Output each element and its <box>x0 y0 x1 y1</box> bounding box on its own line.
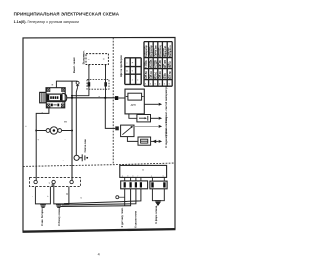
arrow A2 <box>159 117 162 120</box>
svg-text:К акк. батарее: К акк. батарее <box>40 208 44 226</box>
legend table cell texts <box>144 45 172 86</box>
svg-text:1: 1 <box>169 83 171 85</box>
limiter R1 box <box>121 125 134 137</box>
wire marks <box>32 194 82 200</box>
svg-text:3МТ-6: 3МТ-6 <box>169 61 172 68</box>
bolt top-left <box>47 88 50 91</box>
bolt bottom-right <box>61 104 64 107</box>
svg-text:ФВ: ФВ <box>64 121 68 124</box>
svg-text:К амперметру: К амперметру <box>164 85 168 103</box>
svg-text:+: + <box>37 138 39 141</box>
socket wires <box>36 130 72 132</box>
svg-text:11: 11 <box>126 71 129 73</box>
svg-text:в: в <box>132 175 133 177</box>
polarity marks <box>37 121 67 142</box>
svg-text:1.1а(б). Генератор с ручным за: 1.1а(б). Генератор с ручным запуском <box>14 20 80 24</box>
wire generator output <box>66 97 115 99</box>
wire into regulator <box>118 97 125 99</box>
limiter to battery box wire <box>127 137 138 142</box>
arrow A3 <box>159 125 162 128</box>
svg-text:напряжен: напряжен <box>149 46 151 56</box>
pin a wire with ring <box>124 189 126 206</box>
svg-text:-: - <box>63 159 64 162</box>
rectifier block VD1 <box>86 54 108 65</box>
dashed section boundary vertical <box>112 38 114 164</box>
terminal pins <box>51 104 53 107</box>
svg-text:6СТ-50: 6СТ-50 <box>169 71 172 79</box>
svg-text:Г-700А: Г-700А <box>145 60 148 68</box>
svg-text:зажиган.: зажиган. <box>153 48 155 57</box>
terminal circle 2 <box>52 180 55 183</box>
svg-text:приборн.: приборн. <box>157 47 160 57</box>
limiter input pin <box>115 126 119 130</box>
svg-text:б: б <box>163 175 164 177</box>
wire rectifier right down <box>105 65 107 98</box>
svg-text:ФГ-305: ФГ-305 <box>164 59 167 68</box>
svg-text:1: 1 <box>150 83 152 85</box>
svg-text:б: б <box>25 126 27 128</box>
svg-text:-: - <box>65 138 66 141</box>
lug L1 <box>40 205 46 208</box>
wire switch to spark plug <box>76 87 77 155</box>
arrow A1 <box>159 103 162 106</box>
output connector X2 dashed <box>30 178 81 187</box>
svg-text:Выкл. зажиг.: Выкл. зажиг. <box>72 56 76 73</box>
box to strip stubs <box>125 177 165 181</box>
fuse F1 box <box>137 115 151 122</box>
battery output wire <box>151 140 159 142</box>
svg-text:~: ~ <box>88 58 90 62</box>
svg-text:ШР-2Б: ШР-2Б <box>159 60 162 68</box>
svg-text:40 Вт: 40 Вт <box>164 72 167 79</box>
armature commutator <box>47 94 62 101</box>
svg-text:1: 1 <box>145 83 147 85</box>
generator end cap <box>62 93 67 102</box>
arrow A4 <box>159 140 162 143</box>
frame bottom thick line <box>23 229 176 232</box>
svg-text:б: б <box>127 175 128 177</box>
svg-text:12В 5А: 12В 5А <box>145 71 148 79</box>
svg-text:2: 2 <box>159 83 161 85</box>
wire magneto down <box>71 81 73 180</box>
wires connector to lugs <box>35 187 50 205</box>
svg-text:К заднему фон.: К заднему фон. <box>164 128 168 148</box>
svg-text:АРН: АРН <box>131 104 136 107</box>
svg-text:Щиток приборов: Щиток приборов <box>119 55 123 77</box>
XT2 wires to lug <box>152 189 164 201</box>
svg-text:Б: Б <box>81 198 83 200</box>
svg-text:стартерн: стартерн <box>168 47 170 57</box>
solid arrow mid <box>152 140 156 144</box>
terminal circle 1 <box>34 180 37 183</box>
generator G1 shaft <box>40 92 46 102</box>
svg-text:12: 12 <box>142 169 144 171</box>
svg-text:ч: ч <box>126 62 127 64</box>
wire terminal box to left drop <box>36 108 49 180</box>
regulator resistor <box>128 93 142 100</box>
legend table grid <box>144 42 172 87</box>
svg-text:+: + <box>47 196 49 198</box>
fuse output wire <box>151 117 159 119</box>
svg-text:4: 4 <box>98 253 100 257</box>
regulator input pin <box>115 96 118 100</box>
svg-text:ПРИНЦИПИАЛЬНАЯ ЭЛЕКТРИЧЕСКАЯ С: ПРИНЦИПИАЛЬНАЯ ЭЛЕКТРИЧЕСКАЯ СХЕМА <box>14 12 120 17</box>
svg-text:з: з <box>132 80 133 82</box>
wire rectifier left to bus <box>72 65 89 96</box>
svg-text:Б: Б <box>66 194 68 196</box>
svg-text:перем.ток: перем.ток <box>144 46 146 57</box>
wire generator top loop <box>56 81 77 88</box>
generator body <box>46 88 65 101</box>
pin X1.2 <box>104 82 107 86</box>
bolt bottom-left <box>47 104 50 107</box>
svg-text:м: м <box>52 85 54 87</box>
grid cell marks <box>126 62 139 81</box>
panel connector box <box>120 165 167 177</box>
svg-text:Р: Р <box>132 62 134 64</box>
svg-text:А17ДВ: А17ДВ <box>154 60 157 68</box>
svg-text:ж: ж <box>49 183 51 185</box>
svg-text:К фаре освещ.: К фаре освещ. <box>154 205 158 224</box>
bus wires bottom <box>64 189 141 204</box>
svg-text:М14х1: М14х1 <box>154 71 157 79</box>
svg-text:-: - <box>32 196 33 198</box>
generator terminal box <box>46 102 65 108</box>
wire junction down to limiter <box>105 98 115 129</box>
dashed section boundary horizontal <box>23 163 175 166</box>
battery element box <box>138 137 151 145</box>
svg-text:К датчику темп.: К датчику темп. <box>120 207 124 227</box>
svg-text:=: = <box>103 57 105 61</box>
connector X1 dashed box <box>87 80 109 90</box>
socket XS1 <box>46 127 62 134</box>
pin X1.1 <box>88 82 91 86</box>
regulator U1 <box>125 89 144 114</box>
svg-text:рабочая: рабочая <box>162 47 165 56</box>
svg-text:Свеча заж.: Свеча заж. <box>83 138 87 152</box>
fuse input wire <box>129 114 137 118</box>
frame border <box>23 37 175 231</box>
svg-text:12В 2А: 12В 2А <box>159 71 162 79</box>
svg-text:К указателям: К указателям <box>133 211 137 228</box>
svg-text:Выпрямит.: Выпрямит. <box>82 50 86 64</box>
lug L3 <box>155 201 161 205</box>
instrument panel grid <box>125 58 141 85</box>
svg-text:14В 1А: 14В 1А <box>150 71 153 79</box>
svg-text:1: 1 <box>155 83 157 85</box>
terminal circle 3 <box>70 180 73 183</box>
regulator output wire <box>144 103 158 105</box>
terminal strip XT1 <box>121 181 148 189</box>
junction dots <box>35 95 106 132</box>
bolt top-right <box>62 88 65 91</box>
svg-text:5: 5 <box>132 71 134 73</box>
svg-text:в: в <box>137 80 139 82</box>
svg-text:1: 1 <box>164 83 166 85</box>
svg-text:К блоку освещ.: К блоку освещ. <box>57 206 61 225</box>
limiter output wire <box>134 125 158 127</box>
terminal strip XT2 <box>150 181 167 189</box>
stop switch S1 <box>76 81 79 87</box>
svg-text:РН-10Б: РН-10Б <box>150 59 153 68</box>
spark plug FV1 <box>74 154 85 161</box>
lug L2 <box>56 205 62 208</box>
